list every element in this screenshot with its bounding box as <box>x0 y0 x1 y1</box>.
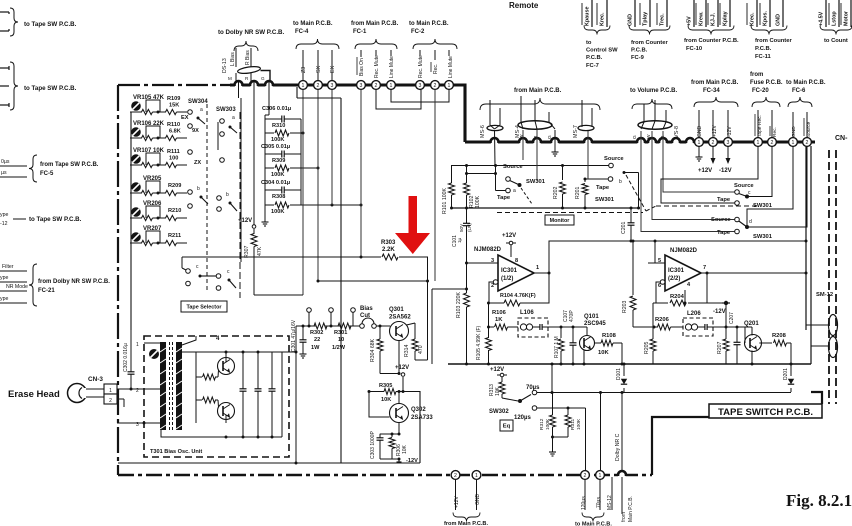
resistor R303 <box>382 254 398 260</box>
transformer T301 right winding <box>176 342 182 430</box>
resistor R102 <box>464 165 470 210</box>
svg-text:FC-6: FC-6 <box>792 88 806 94</box>
cable shield MS-6 <box>487 125 503 130</box>
label 120us bottom <box>581 496 587 510</box>
label Q201 <box>744 321 759 327</box>
resistor R205 <box>650 327 656 364</box>
svg-text:R202: R202 <box>553 186 559 199</box>
wire Z3 drop <box>302 50 304 80</box>
svg-text:-12V: -12V <box>719 168 732 174</box>
node test point 1 <box>307 308 312 328</box>
capacitor osc C3 <box>269 352 276 439</box>
svg-text:Line Mute: Line Mute <box>448 56 454 78</box>
wire bottom drops right <box>585 477 622 514</box>
svg-text:Trec.: Trec. <box>660 13 666 26</box>
node Filter line <box>0 264 27 271</box>
ground FC-34 <box>696 146 703 161</box>
label R313 10K <box>489 384 501 396</box>
svg-text:Bias: Bias <box>360 306 373 312</box>
label SW301 a <box>513 179 546 194</box>
resistor R105 <box>486 327 492 364</box>
svg-text:C201: C201 <box>621 221 627 234</box>
svg-text:R307: R307 <box>244 245 250 258</box>
svg-text:10K: 10K <box>495 386 501 396</box>
label SW303 <box>216 107 236 121</box>
label R310 <box>272 123 285 129</box>
scallop bus <box>672 138 680 144</box>
wire M drop <box>239 81 242 262</box>
svg-text:Dolby NR C: Dolby NR C <box>615 433 621 461</box>
switch SW301 d <box>735 217 752 234</box>
box T301 Bias Osc Unit <box>144 336 289 457</box>
svg-text:R205: R205 <box>644 341 650 354</box>
label to Dolby NR SW P.C.B. <box>218 29 285 36</box>
svg-text:3: 3 <box>727 140 730 146</box>
wire pot loop <box>146 231 160 243</box>
svg-text:1: 1 <box>698 140 701 146</box>
transistor Q101 <box>580 336 595 351</box>
wire op2 out rail <box>707 272 808 275</box>
op-amp IC301 1/2 <box>498 255 534 291</box>
svg-text:to: to <box>586 40 592 46</box>
svg-text:Tape Selector: Tape Selector <box>187 304 223 310</box>
wire bias rail <box>296 325 390 327</box>
capacitor C301 <box>300 325 307 352</box>
svg-text:R211: R211 <box>168 233 181 239</box>
switch SW304 <box>188 110 205 124</box>
potentiometer VR106 <box>131 127 141 137</box>
wire MS-4 tails <box>521 96 555 129</box>
svg-text:Tape: Tape <box>596 185 610 191</box>
svg-text:1: 1 <box>302 83 305 89</box>
svg-text:0µs: 0µs <box>1 159 10 165</box>
label R302 22 1W <box>310 330 323 351</box>
svg-text:1: 1 <box>136 342 139 348</box>
svg-text:Source: Source <box>604 156 624 162</box>
svg-text:R106: R106 <box>492 310 507 316</box>
connector CN-3 pin1 <box>104 384 117 394</box>
label VR106 <box>133 121 165 127</box>
switch SW301 b <box>608 163 638 208</box>
wire ladder to node2 <box>301 167 320 170</box>
svg-text:1: 1 <box>448 83 451 89</box>
wire bias line <box>182 256 428 361</box>
switch SW302 contacts <box>532 390 537 410</box>
wire CN3 to T301 t2 <box>117 388 161 391</box>
svg-text:to Volume P.C.B.: to Volume P.C.B. <box>630 88 677 94</box>
svg-text:SW301: SW301 <box>595 197 615 203</box>
node ype line 3 <box>0 296 27 303</box>
svg-text:15K: 15K <box>169 103 179 109</box>
wire Dolby NR C <box>621 391 624 472</box>
svg-text:R204: R204 <box>670 294 685 300</box>
wire ladder left rail <box>264 115 266 212</box>
wire right rail 1 <box>805 146 807 330</box>
label R202 <box>553 186 559 199</box>
capacitor C304 <box>265 187 301 194</box>
svg-text:from Dolby NR SW P.C.B.: from Dolby NR SW P.C.B. <box>38 279 110 285</box>
svg-text:Eq: Eq <box>503 424 511 430</box>
top bus <box>230 83 462 86</box>
svg-text:+12V: +12V <box>238 218 252 224</box>
resistor R106 <box>489 324 519 330</box>
svg-text:L206: L206 <box>687 311 701 317</box>
label Line Mute 2 <box>448 50 454 78</box>
svg-text:+4.5V: +4.5V <box>819 11 825 26</box>
label Tape S2 <box>596 179 622 191</box>
wire CN3 pin2 stub <box>117 399 124 407</box>
resistor R302 <box>314 323 327 329</box>
svg-text:Q302: Q302 <box>411 407 426 413</box>
wire right drops <box>747 146 807 227</box>
resistor VR105 wiper <box>130 109 160 114</box>
node 2 FC-6 <box>803 138 812 147</box>
capacitor C207 <box>734 327 741 364</box>
svg-text:R302: R302 <box>310 330 323 336</box>
label 100K a <box>271 137 284 143</box>
cable SM-12 shield <box>829 315 838 358</box>
label G W R <box>632 134 666 139</box>
label to Tape SW P.C.B. (top) <box>24 21 77 28</box>
wire R304 to 12V <box>380 373 400 375</box>
node 3 FC-4 <box>328 81 337 90</box>
svg-text:Q101: Q101 <box>584 314 599 320</box>
svg-text:470P: 470P <box>569 310 575 322</box>
resistor R312 <box>550 393 556 438</box>
label SW302 <box>489 409 509 415</box>
svg-text:ype: ype <box>0 296 8 302</box>
svg-text:G: G <box>261 76 265 81</box>
label +12V -12V <box>698 168 732 174</box>
wire fb join <box>487 302 490 329</box>
svg-text:Erase Head: Erase Head <box>8 389 60 400</box>
wire 70us line <box>537 391 602 470</box>
brace from Main PCB <box>480 98 600 110</box>
label SX <box>316 65 322 73</box>
svg-text:from Counter: from Counter <box>631 40 668 46</box>
node 0us line <box>0 159 27 166</box>
brace to Dolby NR SW <box>234 41 258 51</box>
potentiometer VR205 <box>131 182 141 192</box>
svg-text:R: R <box>533 135 539 139</box>
svg-text:R210: R210 <box>168 208 181 214</box>
wire Q201 collector <box>759 342 772 344</box>
svg-text:Q301: Q301 <box>389 307 404 313</box>
label R106 1K <box>492 310 507 323</box>
wire U-link LineMute <box>391 89 449 102</box>
node 1 FC-6 <box>789 138 798 147</box>
resistor R104 <box>504 300 520 306</box>
label R211 <box>168 233 181 239</box>
resistor VR107 wiper <box>130 162 160 167</box>
wire monitor link <box>497 175 758 213</box>
scallop bus <box>648 138 656 144</box>
svg-text:to Main P.C.B.: to Main P.C.B. <box>409 21 449 27</box>
label MS-12 bottom <box>607 495 613 510</box>
label Tape S1 <box>497 195 511 201</box>
capacitor C303 <box>377 434 384 459</box>
wire drop BiasOn <box>360 89 362 257</box>
svg-text:100K: 100K <box>271 137 284 143</box>
label MS-7 <box>573 125 579 138</box>
scallop bus <box>584 138 592 144</box>
transformer T301 left winding <box>160 342 166 430</box>
svg-text:2SA733: 2SA733 <box>411 415 433 421</box>
label R306 10K <box>396 444 408 456</box>
svg-text:Bias On: Bias On <box>359 58 365 76</box>
svg-text:FC-1: FC-1 <box>353 29 367 35</box>
label +12V v <box>712 125 718 137</box>
brace FC-2 <box>413 39 457 49</box>
svg-text:L106: L106 <box>520 310 534 316</box>
svg-text:6.8K: 6.8K <box>169 129 181 135</box>
op-amp IC301 2/2 <box>665 255 701 291</box>
svg-text:R301: R301 <box>334 330 347 336</box>
label Bias Cut <box>360 306 373 319</box>
svg-text:-12: -12 <box>0 221 8 227</box>
label C301 47u 16V <box>291 319 297 352</box>
wire tape stubs <box>521 188 532 204</box>
svg-text:Remote: Remote <box>509 1 539 10</box>
svg-text:R104 4.76K(F): R104 4.76K(F) <box>500 293 536 299</box>
potentiometer VR105 <box>131 101 141 111</box>
label Remote <box>509 1 539 10</box>
wire op2 -in <box>660 280 665 285</box>
wire U-link RecMute <box>376 89 421 109</box>
wire L206 out <box>710 326 753 329</box>
svg-text:2SC945: 2SC945 <box>584 321 606 327</box>
label VR105 <box>133 95 165 101</box>
svg-text:8: 8 <box>515 258 518 264</box>
wire -12V arrow <box>726 146 731 164</box>
label pin7 <box>703 265 706 271</box>
svg-text:120µs: 120µs <box>581 496 587 510</box>
svg-text:Fig. 8.2.1: Fig. 8.2.1 <box>786 491 852 510</box>
label Rec. Mute <box>374 50 380 78</box>
wire FC6 drops <box>793 112 807 138</box>
svg-text:a: a <box>232 115 235 121</box>
PCB border top dashed <box>118 84 232 86</box>
label GND v2 <box>791 126 797 137</box>
label 70us bottom <box>596 497 602 508</box>
svg-text:2: 2 <box>584 473 587 479</box>
node 1 FC-1 <box>387 81 396 90</box>
label Tape S4 <box>717 230 731 236</box>
label from Counter P.C.B. FC-9 <box>631 40 668 61</box>
svg-text:7: 7 <box>703 265 706 271</box>
svg-text:R310: R310 <box>272 123 285 129</box>
box Tape Selector <box>181 301 227 312</box>
resistor R109 <box>158 109 187 114</box>
label R312 100K <box>539 418 551 430</box>
svg-text:VS-8: VS-8 <box>674 126 680 138</box>
transistor Q302 <box>390 404 409 423</box>
svg-text:FC-7: FC-7 <box>586 63 599 69</box>
svg-text:GND: GND <box>628 14 634 26</box>
svg-text:1: 1 <box>757 140 760 146</box>
label EX tag <box>181 115 189 121</box>
svg-text:Rec. Mute: Rec. Mute <box>418 55 424 78</box>
label from Main P.C.B. FC-1 <box>351 21 399 35</box>
label pin5 <box>658 258 661 264</box>
label terminal 3 <box>136 422 139 428</box>
label Z3 <box>301 67 307 73</box>
label Source S2 <box>604 156 624 162</box>
svg-text:R110: R110 <box>167 122 180 128</box>
label R108 10K <box>598 333 617 356</box>
label R305 10K <box>379 383 392 403</box>
label 100K b <box>271 172 284 178</box>
label Source S1 <box>503 164 523 170</box>
label C107 470P <box>563 310 575 322</box>
svg-text:1/2W: 1/2W <box>332 345 346 351</box>
wire op1 +in <box>467 262 499 264</box>
potentiometer VR207 <box>131 232 141 242</box>
svg-text:100K: 100K <box>271 209 284 215</box>
resistor R304 <box>377 325 383 374</box>
wire drop Z3 <box>254 89 303 295</box>
svg-text:b: b <box>619 179 622 185</box>
brace FC-1 <box>355 39 397 49</box>
svg-text:from Main P.C.B.: from Main P.C.B. <box>691 80 739 86</box>
transistor Q201 <box>745 327 762 352</box>
transistor Q osc1 <box>218 358 235 375</box>
node test point 2 <box>329 308 334 328</box>
svg-text:2: 2 <box>434 83 437 89</box>
transformer T301 core <box>170 342 173 430</box>
label C306 <box>262 106 291 112</box>
resistor R305 <box>368 389 421 395</box>
label to Main P.C.B. FC-4 <box>293 21 333 35</box>
svg-text:+12V: +12V <box>395 365 409 371</box>
svg-text:Lstop: Lstop <box>832 11 838 26</box>
svg-text:R207: R207 <box>717 341 723 354</box>
box L206 <box>683 318 713 336</box>
potentiometer VR206 <box>131 207 141 217</box>
potentiometer VR107 <box>131 154 141 164</box>
svg-text:R304 68K: R304 68K <box>370 338 376 362</box>
node 2 FC-4 <box>314 81 323 90</box>
wire sw feed 1 <box>522 130 524 160</box>
label R109 15K <box>167 96 180 109</box>
box Eq <box>500 420 513 431</box>
svg-text:2: 2 <box>317 83 320 89</box>
resistor R306 <box>389 433 395 460</box>
label pin6 <box>658 283 661 289</box>
resistor VR206 wiper <box>130 215 160 220</box>
svg-text:FC-4: FC-4 <box>295 29 309 35</box>
label from Dolby NR SW P.C.B. FC-21 <box>38 279 110 294</box>
label Line Mute <box>389 50 395 78</box>
svg-text:100K: 100K <box>475 195 481 208</box>
svg-text:GND: GND <box>776 14 782 26</box>
ground C301 <box>300 350 307 358</box>
svg-text:1W: 1W <box>311 345 320 351</box>
svg-text:10K: 10K <box>402 444 408 454</box>
svg-text:R311: R311 <box>570 419 576 430</box>
wire sw d feeds <box>661 146 758 203</box>
ground MS-4 G <box>552 130 559 156</box>
svg-text:R303: R303 <box>381 240 396 246</box>
svg-text:EX: EX <box>330 65 336 73</box>
svg-text:W: W <box>519 134 525 139</box>
svg-text:2: 2 <box>771 140 774 146</box>
svg-text:FC-9: FC-9 <box>631 55 645 61</box>
svg-text:R Bias: R Bias <box>245 50 251 65</box>
svg-text:FC-11: FC-11 <box>755 54 772 60</box>
svg-text:1: 1 <box>792 140 795 146</box>
resistor R308 <box>265 202 301 208</box>
svg-text:NR Mode: NR Mode <box>6 284 28 290</box>
svg-text:R208: R208 <box>772 333 787 339</box>
svg-text:2.2K: 2.2K <box>382 247 395 253</box>
label DS-13 <box>222 58 228 73</box>
svg-text:R103 220K: R103 220K <box>456 292 462 318</box>
resistor R204 <box>670 300 686 306</box>
svg-text:(1/2): (1/2) <box>501 276 513 282</box>
label terminal 4 <box>216 336 220 342</box>
svg-text:from Main P.C.B.: from Main P.C.B. <box>444 521 488 526</box>
svg-text:Source: Source <box>734 183 754 189</box>
resistor R103 <box>464 263 470 364</box>
label C305 <box>261 144 290 150</box>
switch contact row3 <box>188 150 225 163</box>
wire t3 wire <box>117 422 161 425</box>
svg-text:ZX: ZX <box>194 160 201 166</box>
svg-text:2: 2 <box>454 473 457 479</box>
svg-text:Tplay: Tplay <box>643 12 649 26</box>
wire bottom drops <box>456 479 477 510</box>
label R203 <box>622 300 628 313</box>
wire sec right rail <box>281 352 283 437</box>
svg-text:from Tape SW P.C.B.: from Tape SW P.C.B. <box>40 162 99 168</box>
wire ladder to node1 <box>301 132 305 135</box>
wire Q301 collector <box>398 341 401 376</box>
label VR107 <box>133 148 165 154</box>
wire lower rail <box>448 363 811 365</box>
box L106 <box>518 318 548 337</box>
svg-text:2: 2 <box>136 388 139 394</box>
svg-text:M: M <box>228 76 232 81</box>
wire bottom long <box>118 391 420 463</box>
label CN- <box>835 135 848 142</box>
label NJM082D op1 <box>474 247 502 253</box>
transistor Q301 <box>390 322 409 341</box>
PCB border left dashed <box>117 85 119 475</box>
svg-text:MS-6: MS-6 <box>480 125 486 138</box>
label NJM082D op2 <box>670 248 698 254</box>
switch Bias Cut <box>360 318 377 328</box>
scallop R <box>250 81 258 87</box>
svg-text:b: b <box>226 192 229 198</box>
wire op1 up rail <box>549 240 808 274</box>
svg-text:22: 22 <box>314 337 320 343</box>
scallop bus <box>686 138 694 144</box>
resistor R108 <box>595 340 623 346</box>
svg-text:Z3: Z3 <box>301 67 307 73</box>
label C101 50V LN <box>452 223 472 247</box>
label SM-12 <box>816 292 833 298</box>
label b tag <box>197 186 229 198</box>
svg-text:SW301: SW301 <box>753 234 773 240</box>
svg-text:SW302: SW302 <box>489 409 509 415</box>
label EX <box>330 65 336 73</box>
power +12V Q301 <box>395 365 409 393</box>
brace FC-34 <box>694 97 738 107</box>
svg-text:Control SW: Control SW <box>586 48 618 54</box>
svg-text:R109: R109 <box>167 96 180 102</box>
svg-text:to Main P.C.B.: to Main P.C.B. <box>786 80 826 86</box>
